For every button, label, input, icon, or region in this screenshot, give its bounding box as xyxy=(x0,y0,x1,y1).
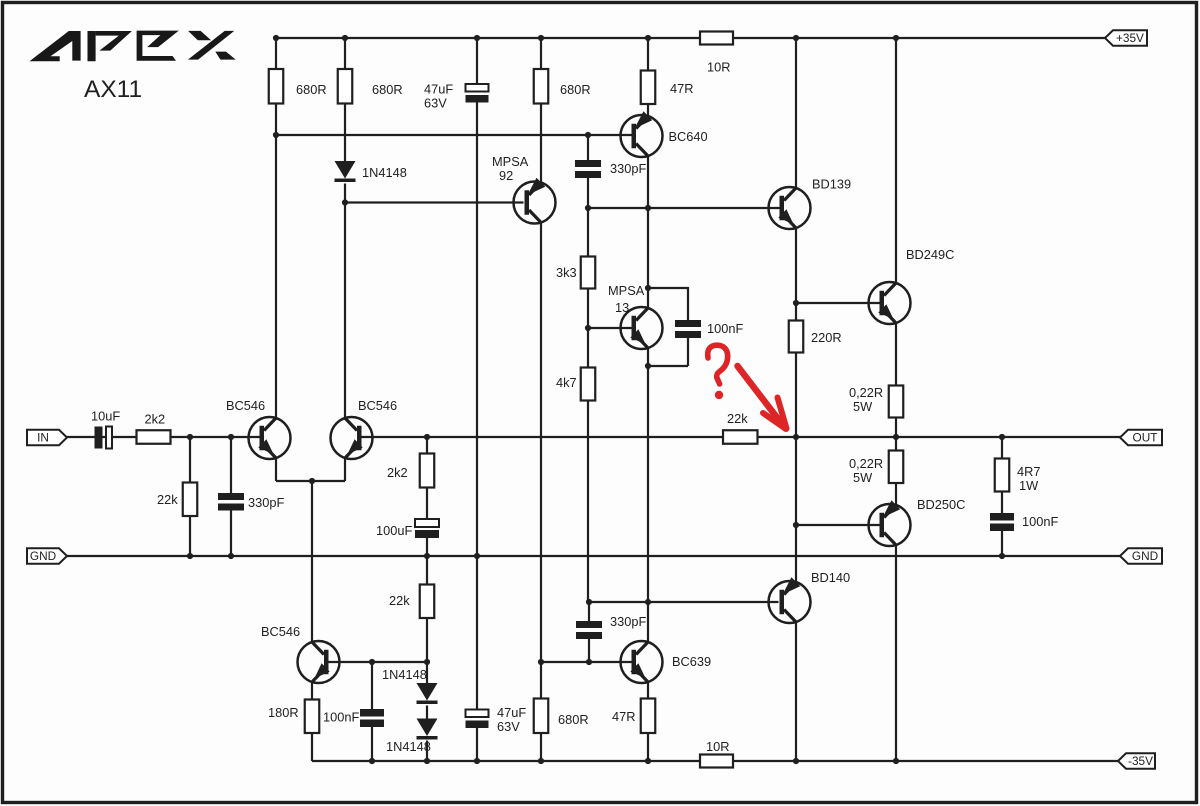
svg-text:IN: IN xyxy=(37,431,49,445)
transistor MPSA92 Q4 (PNP) xyxy=(514,182,556,224)
capacitor 100uF C6 xyxy=(415,519,439,527)
svg-text:1W: 1W xyxy=(1019,478,1039,493)
capacitor 100nF C5 (across MPSA13) xyxy=(648,287,688,289)
wire BD250C base lead xyxy=(796,524,880,526)
svg-text:1N4148: 1N4148 xyxy=(386,739,431,754)
wire MPSA92 base net xyxy=(345,201,524,203)
svg-text:BD140: BD140 xyxy=(811,570,850,585)
wire VAS bottom net (BD140 base) xyxy=(589,601,779,603)
resistor 22k R9 (feedback) xyxy=(723,430,758,444)
resistor 22k R(in shunt) xyxy=(189,437,191,483)
wire -35V bottom rail xyxy=(312,760,1118,762)
APEX logo xyxy=(30,31,236,62)
svg-text:680R: 680R xyxy=(560,82,591,97)
wire driver spine below output node xyxy=(795,437,797,582)
svg-text:+35V: +35V xyxy=(1116,31,1144,45)
node dots output line xyxy=(424,434,430,440)
svg-text:AX11: AX11 xyxy=(84,76,142,103)
resistor 0,22R 5W R11 xyxy=(889,386,904,418)
wire Q2 collector xyxy=(344,203,346,419)
terminal IN xyxy=(27,430,67,446)
terminal +35V xyxy=(1105,30,1147,46)
capacitor 330pF C7 (bottom Miller) xyxy=(588,602,590,622)
wire BC639 base net xyxy=(541,661,634,663)
svg-text:330pF: 330pF xyxy=(610,614,646,629)
wire MPSA92 collector down to BC639 base node xyxy=(540,224,542,663)
svg-text:-35V: -35V xyxy=(1128,754,1153,768)
svg-text:10R: 10R xyxy=(706,739,729,754)
wire MPSA13 base lead xyxy=(588,327,632,329)
terminal -35V xyxy=(1118,753,1155,769)
capacitor 330pF C4 (top Miller) xyxy=(587,135,589,161)
svg-text:100nF: 100nF xyxy=(707,321,743,336)
svg-text:BC640: BC640 xyxy=(669,129,708,144)
svg-text:2k2: 2k2 xyxy=(145,412,166,427)
transistor BC640 Q5 (PNP) xyxy=(647,104,649,116)
svg-text:220R: 220R xyxy=(811,330,842,345)
capacitor 47uF 63V C3 (top) xyxy=(476,38,478,85)
transistor BC546 Q2 (feedback side, NPN mirrored) xyxy=(331,417,373,459)
svg-text:180R: 180R xyxy=(268,705,299,720)
resistor 220R R10 xyxy=(795,303,797,321)
terminal GND right xyxy=(1120,548,1162,564)
capacitor 100nF C9 (current source) xyxy=(371,662,373,710)
svg-text:680R: 680R xyxy=(558,712,589,727)
svg-text:BD139: BD139 xyxy=(812,177,851,192)
svg-text:22k: 22k xyxy=(157,492,178,507)
resistor 47R R15 xyxy=(647,682,649,699)
terminal OUT xyxy=(1120,430,1162,446)
svg-text:2k2: 2k2 xyxy=(387,465,408,480)
node dots GND rail xyxy=(187,553,193,559)
resistor 10R R6 (top rail) xyxy=(700,32,733,45)
resistor 4R7 1W R18 xyxy=(1001,437,1003,459)
resistor 180R R13 xyxy=(311,682,313,700)
svg-text:100uF: 100uF xyxy=(376,523,412,538)
transistor MPSA13 Q6 (bias spreader) xyxy=(647,208,649,308)
resistor 22k R17 (bias ref) xyxy=(426,556,428,585)
wire output/feedback line xyxy=(362,436,1121,438)
svg-text:0,22R: 0,22R xyxy=(849,456,883,471)
svg-text:10uF: 10uF xyxy=(91,409,120,424)
resistor 10R R16 (bottom rail) xyxy=(700,755,733,768)
resistor 680R R14 (bottom) xyxy=(540,662,542,699)
svg-text:BC546: BC546 xyxy=(261,624,300,639)
resistor 680R R1 xyxy=(275,38,277,69)
transistor BD139 Q8 (driver NPN) xyxy=(795,38,797,189)
capacitor 330pF C2 (input) xyxy=(230,437,232,494)
svg-text:100nF: 100nF xyxy=(1022,514,1058,529)
wire input line xyxy=(67,436,260,438)
svg-text:GND: GND xyxy=(30,549,56,563)
diode 1N4148 D3 xyxy=(426,706,428,720)
svg-text:OUT: OUT xyxy=(1133,431,1158,445)
resistor 680R R3 xyxy=(540,38,542,69)
wire BC640 base net (node B1) xyxy=(276,134,632,136)
wire decoupling column xyxy=(476,103,478,557)
svg-text:1N4148: 1N4148 xyxy=(382,667,427,682)
node dots bottom rail xyxy=(369,758,375,764)
svg-text:GND: GND xyxy=(1132,549,1158,563)
svg-text:330pF: 330pF xyxy=(248,495,284,510)
resistor 2k2 R(in series) xyxy=(137,430,171,444)
svg-text:63V: 63V xyxy=(424,96,447,111)
wire Q1 collector xyxy=(275,135,277,418)
resistor 47R R5 xyxy=(647,38,649,71)
svg-text:680R: 680R xyxy=(296,82,327,97)
wire +35V top rail xyxy=(276,37,1105,39)
wire VAS top net (BD139 base) xyxy=(588,207,780,209)
transistor BC546 Q1 (input, NPN) xyxy=(249,417,291,459)
svg-text:100nF: 100nF xyxy=(323,710,359,725)
svg-text:4R7: 4R7 xyxy=(1017,464,1040,479)
transistor BC546 Q3 (tail current source, NPN mirrored) xyxy=(298,641,340,683)
svg-text:13: 13 xyxy=(615,300,629,315)
svg-text:10R: 10R xyxy=(707,60,730,75)
wire diff-pair emitter link xyxy=(276,480,345,482)
svg-text:0,22R: 0,22R xyxy=(849,385,883,400)
node dots input line xyxy=(187,434,193,440)
resistor 4k7 R8 xyxy=(587,328,589,368)
svg-text:47R: 47R xyxy=(670,81,693,96)
annotation red arrow xyxy=(738,366,787,429)
svg-text:22k: 22k xyxy=(727,411,748,426)
svg-text:1N4148: 1N4148 xyxy=(362,165,407,180)
resistor 0,22R 5W R12 xyxy=(895,437,897,451)
resistor 680R R2 xyxy=(344,38,346,69)
svg-text:5W: 5W xyxy=(853,470,873,485)
svg-text:BC639: BC639 xyxy=(672,654,711,669)
terminal GND left xyxy=(27,548,67,564)
node dots top rail xyxy=(273,35,279,41)
svg-text:47R: 47R xyxy=(612,709,635,724)
svg-text:BD250C: BD250C xyxy=(917,497,965,512)
annotation red question mark xyxy=(708,345,728,384)
wire current-source base net xyxy=(329,661,428,663)
wire BD139 emitter to BD249C base xyxy=(796,302,880,304)
svg-text:330pF: 330pF xyxy=(610,161,646,176)
svg-text:5W: 5W xyxy=(853,399,873,414)
transistor BC639 Q7 (VAS) xyxy=(621,641,663,683)
diode 1N4148 D1 xyxy=(335,161,356,179)
transistor BD140 Q10 (driver PNP) xyxy=(769,581,811,623)
capacitor 100nF C10 (Zobel) xyxy=(990,513,1014,521)
capacitor 10uF C1 (input electrolytic) xyxy=(95,427,103,449)
svg-text:4k7: 4k7 xyxy=(556,375,577,390)
diode 1N4148 D2 xyxy=(426,662,428,683)
wire GND rail xyxy=(67,555,1120,557)
svg-text:47uF: 47uF xyxy=(424,82,453,97)
resistor 2k2 R4 (feedback shunt) xyxy=(426,437,428,454)
svg-text:63V: 63V xyxy=(497,719,520,734)
svg-text:BC546: BC546 xyxy=(226,398,265,413)
svg-text:3k3: 3k3 xyxy=(556,265,577,280)
resistor 3k3 R7 xyxy=(587,208,589,257)
svg-text:22k: 22k xyxy=(389,593,410,608)
svg-text:47uF: 47uF xyxy=(497,705,526,720)
svg-text:92: 92 xyxy=(499,168,513,183)
transistor BD249C Q9 (output NPN) xyxy=(895,38,897,284)
svg-text:MPSA: MPSA xyxy=(608,283,645,298)
svg-text:MPSA: MPSA xyxy=(492,154,529,169)
transistor BD250C Q11 (output PNP) xyxy=(869,504,911,546)
node dots VAS nets xyxy=(273,132,279,138)
wire diff-pair tail xyxy=(311,481,313,642)
svg-text:BC546: BC546 xyxy=(358,398,397,413)
svg-text:BD249C: BD249C xyxy=(906,247,954,262)
capacitor 47uF 63V C8 (bottom) xyxy=(476,556,478,711)
svg-text:680R: 680R xyxy=(372,82,403,97)
